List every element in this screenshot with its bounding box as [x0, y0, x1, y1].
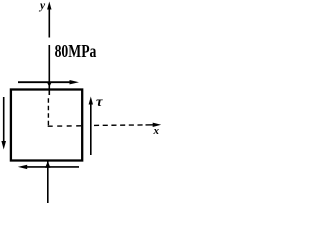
svg-text:y: y: [38, 0, 46, 12]
svg-text:80MPa: 80MPa: [55, 41, 97, 61]
svg-text:x: x: [153, 125, 160, 137]
svg-text:τ: τ: [96, 94, 104, 109]
